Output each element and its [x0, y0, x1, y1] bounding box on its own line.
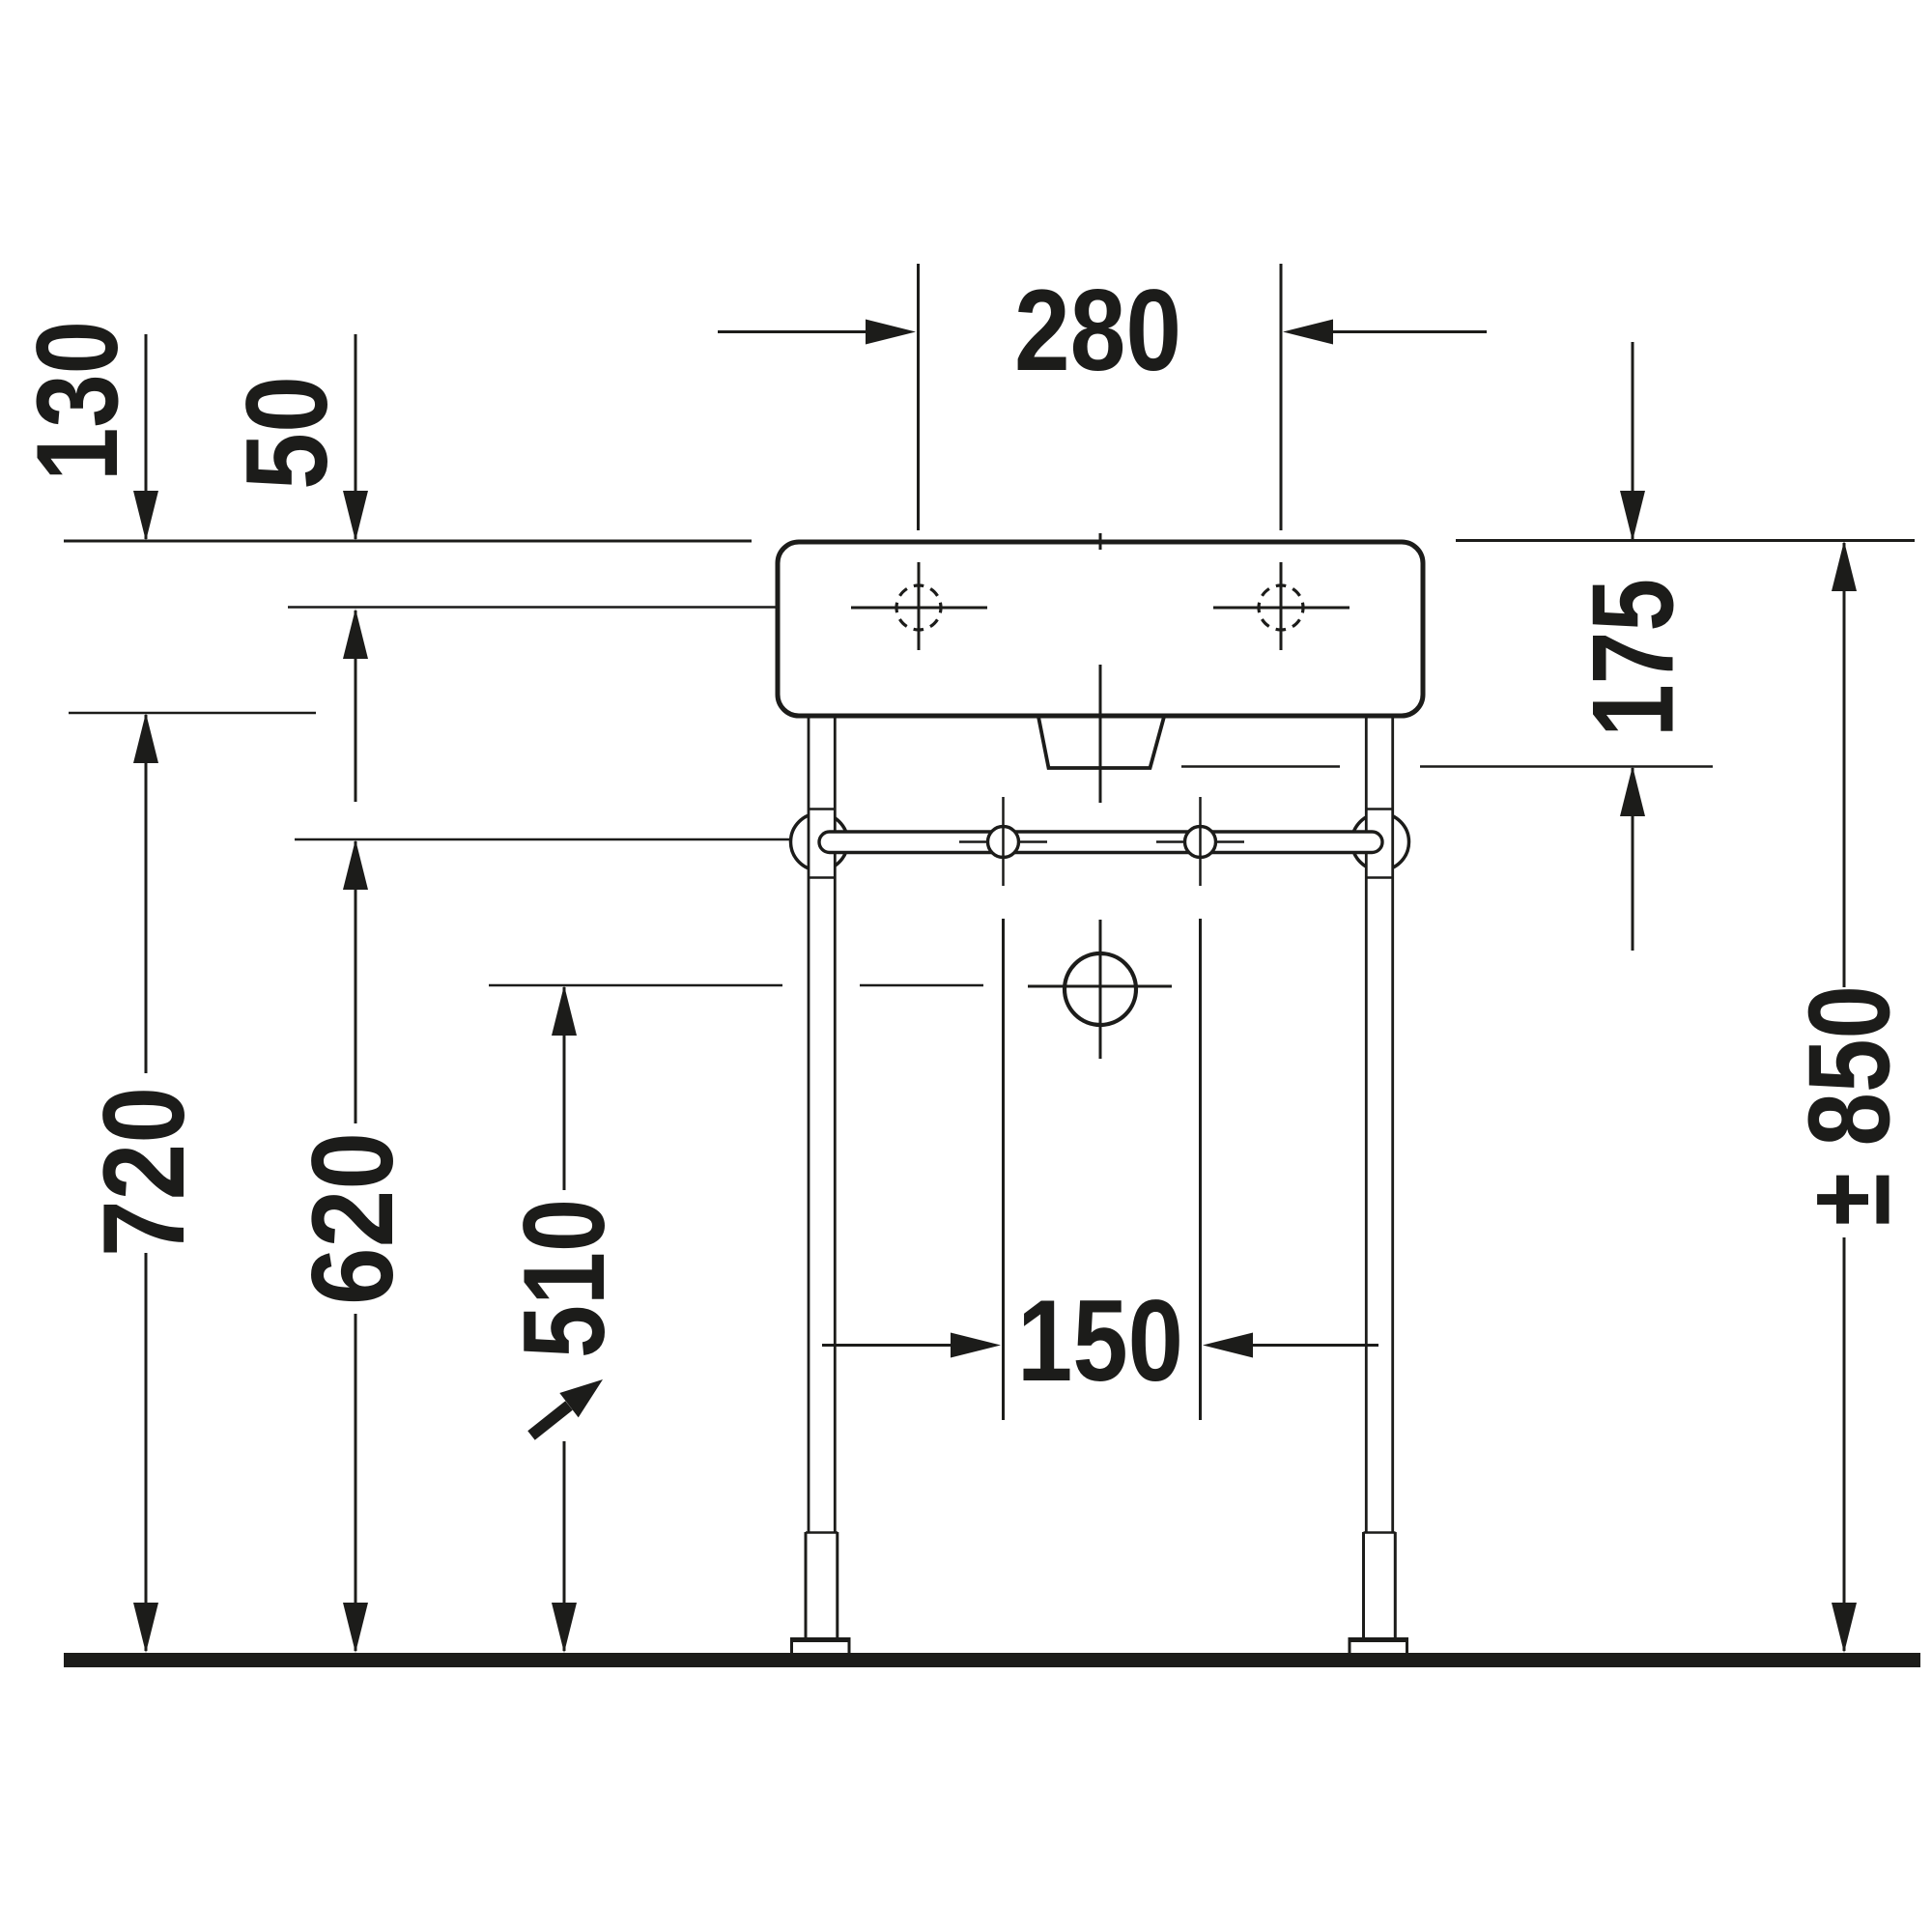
svg-text:± 850: ± 850: [1785, 985, 1915, 1226]
svg-text:50: 50: [222, 376, 352, 490]
svg-text:620: 620: [288, 1132, 417, 1305]
svg-text:175: 175: [1569, 579, 1698, 737]
svg-text:510: 510: [499, 1199, 629, 1358]
svg-text:720: 720: [79, 1087, 209, 1257]
svg-text:150: 150: [1017, 1276, 1183, 1406]
svg-text:280: 280: [1014, 266, 1181, 395]
svg-text:130: 130: [13, 321, 142, 481]
